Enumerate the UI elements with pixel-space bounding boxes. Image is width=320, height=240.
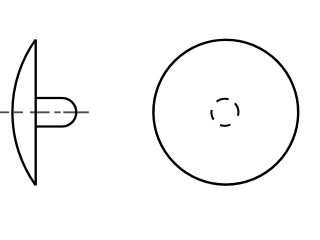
wire: stem top line xyxy=(36,97,62,99)
wire: stem bottom line xyxy=(36,125,62,127)
wire: dome flat back (vertical line) xyxy=(35,40,37,186)
wire: dome curved face (arc) xyxy=(12,40,35,186)
centerline (side view axis, dash-dot) xyxy=(0,111,89,113)
wire: stem rounded end cap xyxy=(62,98,76,127)
node: top view outer circle xyxy=(153,40,298,185)
node: hidden stem circle (dashed, 4 arcs) xyxy=(211,99,238,126)
